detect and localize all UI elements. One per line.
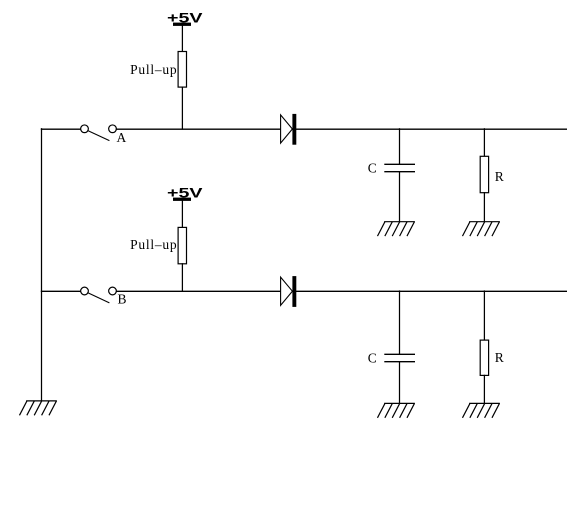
power rail +5V (top) [173, 23, 191, 26]
switch A right contact [109, 125, 117, 133]
svg-text:Pull–up: Pull–up [130, 62, 177, 77]
resistor R2 (bottom) [480, 340, 488, 375]
wire pull-up resistor to top row [181, 87, 183, 129]
resistor R1 (top) [480, 156, 488, 192]
capacitor C2 (bottom) [385, 354, 414, 361]
wire resistor R1 to ground [483, 193, 485, 222]
svg-text:A: A [117, 130, 127, 145]
ground left rail [20, 401, 57, 415]
svg-text:+5V: +5V [167, 10, 203, 26]
resistor Pull-up (top) [178, 52, 186, 88]
switch B right contact [109, 287, 117, 295]
svg-text:R: R [495, 169, 504, 184]
power rail +5V (bottom) [173, 198, 191, 201]
ground under R2 [463, 403, 500, 417]
svg-text:+5V: +5V [167, 185, 203, 201]
resistor Pull-up (bottom) [178, 227, 186, 263]
ground under C2 [378, 403, 415, 417]
wire top row to resistor R1 [483, 129, 485, 157]
wire switch A to right end (top row) [117, 128, 567, 130]
wire +5V rail to pull-up resistor (top) [181, 26, 183, 52]
svg-text:C: C [368, 351, 377, 366]
svg-text:C: C [368, 161, 377, 176]
svg-text:Pull–up: Pull–up [130, 237, 177, 252]
wire capacitor C1 to ground [399, 172, 401, 222]
ground under R1 [463, 222, 500, 236]
wire resistor R2 to ground [483, 375, 485, 403]
switch B left contact [81, 287, 89, 295]
wire left rail to switch B [42, 290, 81, 292]
switch A arm [88, 131, 109, 141]
wire switch B to right end (bottom row) [117, 290, 567, 292]
capacitor C1 (top) [385, 164, 414, 171]
diode D1 (top row) [281, 114, 297, 145]
ground under C1 [378, 222, 415, 236]
svg-text:B: B [118, 292, 127, 307]
wire bottom row to resistor R2 [483, 291, 485, 340]
wire capacitor C2 to ground [399, 362, 401, 404]
wire left rail vertical [41, 129, 43, 401]
wire top row to capacitor C1 [399, 129, 401, 165]
svg-text:R: R [495, 350, 504, 365]
wire bottom row to capacitor C2 [399, 291, 401, 354]
switch B arm [88, 293, 109, 303]
diode D2 (bottom row) [281, 276, 297, 307]
wire +5V rail to pull-up resistor (bottom) [181, 201, 183, 228]
wire pull-up resistor to bottom row [181, 264, 183, 291]
wire left rail to switch A [42, 128, 81, 130]
switch A left contact [81, 125, 89, 133]
